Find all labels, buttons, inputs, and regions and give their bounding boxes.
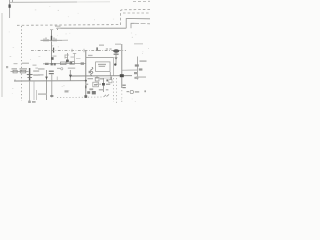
resistor R12 marks [135, 64, 139, 66]
node tick x72 [71, 49, 73, 52]
wire bus y81 [14, 80, 87, 82]
wire corner to right y18 [126, 19, 150, 29]
resistor chain y63 wire [43, 62, 86, 64]
wire y71 left [11, 71, 29, 73]
wire stub y58 [76, 58, 81, 60]
resistor R8 on x86 [85, 86, 87, 89]
box small d [109, 80, 112, 83]
test point TP1 [96, 47, 97, 50]
node junction x122 y76 [120, 74, 124, 77]
label inside K1 [98, 64, 106, 65]
question mark smudge [6, 66, 8, 68]
wire right vertical x122 [121, 44, 123, 88]
wire shield dashed inner [123, 12, 150, 14]
wire bus y28 [58, 28, 127, 30]
node junction x52 y96 [50, 95, 53, 97]
wire vertical x30 lower [29, 81, 31, 101]
capacitor C13 curl k [92, 91, 96, 94]
wire vertical x52 lower [51, 75, 53, 98]
capacitor C9 oval [113, 49, 119, 53]
box f [93, 82, 99, 87]
wire dashed vertical x122 lower [121, 90, 123, 103]
label dashes l [99, 89, 103, 90]
label faint x134 y43 [134, 43, 143, 44]
wire dotted left shield vertical [21, 26, 23, 101]
label TP1 smudge [99, 45, 104, 46]
resistor R14 marks [134, 77, 138, 79]
label smudge x38 y93 [38, 93, 47, 94]
node top-left tick [12, 0, 14, 2]
resistor R13 marks [134, 72, 137, 74]
wire arrow x70 [69, 70, 71, 81]
capacitor C13 marks j [87, 91, 90, 94]
label text above k [89, 88, 93, 90]
wire horizontal y57 [86, 56, 114, 58]
node dot x115 y64 [114, 63, 116, 65]
node dot x86 y80 [85, 80, 87, 82]
wire dash-dot mid line [31, 49, 126, 51]
node tick x84 [83, 49, 85, 52]
capacitor C12 marks [139, 68, 143, 70]
resistor R2 body [20, 70, 26, 73]
wire dashed top-right [133, 0, 150, 2]
wire V1 below [51, 42, 53, 64]
wire vertical x113 [113, 57, 115, 75]
wire vertical x137 [136, 57, 138, 80]
terminal tick y81 left [14, 79, 16, 81]
transistor Q1 dark blob [102, 83, 105, 86]
wire vertical x46.5 [46, 70, 48, 100]
label smudge x38 y68 [38, 68, 45, 69]
node junction x67 y61 [66, 60, 69, 63]
node tick x111 y78 [110, 77, 111, 80]
resistor R1 body [13, 70, 17, 73]
bottom cluster label smudge a [88, 78, 94, 79]
capacitor C3 at x52 [49, 71, 54, 72]
inductor L1 core marks [89, 71, 91, 73]
wire y70 right [122, 69, 138, 71]
wire vertical x74 [74, 53, 76, 62]
node circle x62 [61, 68, 63, 70]
wire left margin [1, 13, 3, 97]
wire vertical x86 [85, 51, 87, 98]
wire top-left vertical [9, 0, 11, 18]
wire top horizontal faint right [77, 1, 110, 3]
mark in box f [94, 84, 97, 85]
label smudge x38 y74 [38, 74, 44, 75]
wire dashes left of Q1 [97, 83, 102, 85]
relay K1 box [96, 62, 110, 72]
arrow head x70 [69, 75, 72, 78]
label speck a [33, 65, 37, 66]
wire dashed vertical x113.5 lower [113, 78, 115, 102]
wire corner to right y23 [131, 23, 134, 28]
wire tick x57 [56, 77, 58, 82]
node junction x52 y58 [51, 57, 54, 60]
inductor L1 curl [91, 67, 93, 75]
capacitor C14 marks [122, 85, 125, 86]
label smudge right of RV1 [33, 70, 39, 71]
wire top horizontal [10, 1, 77, 3]
wire vertical x36.5 lower [36, 90, 38, 100]
diode CR2 on x116 [115, 53, 117, 65]
label smudge x107 [106, 48, 108, 49]
wire long dashed shield bottom [17, 24, 121, 27]
ground x86 [84, 95, 87, 98]
wire vertical x110 stub [109, 72, 111, 76]
label dashes m [106, 89, 109, 90]
tube V1 cathode dark [51, 36, 52, 42]
label smudge left cluster top [14, 63, 18, 64]
label smudge above R3 [53, 56, 57, 57]
connector J1 [9, 4, 11, 7]
resistor R5 body [61, 62, 67, 65]
resistor R4 dark [51, 63, 53, 65]
transformer T1 box [95, 78, 99, 81]
wire dotted y97 [57, 96, 103, 99]
label bottom right glyphs [127, 91, 130, 92]
label smudge above R6 [71, 57, 75, 58]
slant marks n [104, 94, 110, 97]
tube V1 element row [44, 38, 56, 42]
potentiometer RV1 dark [29, 68, 30, 81]
potentiometer RV1 side ticks [27, 74, 33, 76]
label smudge right y77 [136, 76, 146, 77]
label smudge b [100, 78, 104, 79]
wire grid vertical V1 [51, 30, 53, 39]
wire main bus y76 [70, 75, 132, 77]
label bottom left t6 [28, 101, 31, 103]
label dashes x68 y68 [68, 68, 75, 69]
label smudge above C9 [115, 44, 121, 45]
resistor R3 dark [45, 63, 49, 65]
diode CR1 cluster [64, 55, 66, 59]
wire vertical x67 [67, 53, 69, 62]
wire tick x97 [96, 76, 98, 79]
label smudge x65 y90 [65, 90, 69, 92]
wire vertical x34 lower [33, 81, 35, 100]
label speck b [35, 68, 38, 69]
resistor R6 body [70, 62, 75, 65]
wire y78 stub [95, 77, 110, 79]
label smudge right of x137 [140, 60, 147, 61]
transistor Q1 wire [103, 78, 105, 92]
wire shield dashed corner [120, 10, 150, 26]
label values above R1 R2 [12, 68, 18, 69]
capacitor C4 marks [81, 62, 84, 64]
label C6 smudge [88, 55, 93, 56]
capacitor C5 dark bit [70, 62, 72, 64]
node dot c [106, 79, 108, 81]
label smudge i [106, 84, 110, 85]
label smudge e [85, 84, 88, 85]
label text smudge near V1 [55, 26, 61, 27]
wire heater horizontal [41, 39, 63, 41]
wire dashed vertical x116.5 [116, 78, 118, 103]
label dash x57 y68 [57, 68, 60, 69]
capacitor C1 dark tick [53, 48, 54, 53]
arrow head x46.5 [45, 77, 48, 80]
